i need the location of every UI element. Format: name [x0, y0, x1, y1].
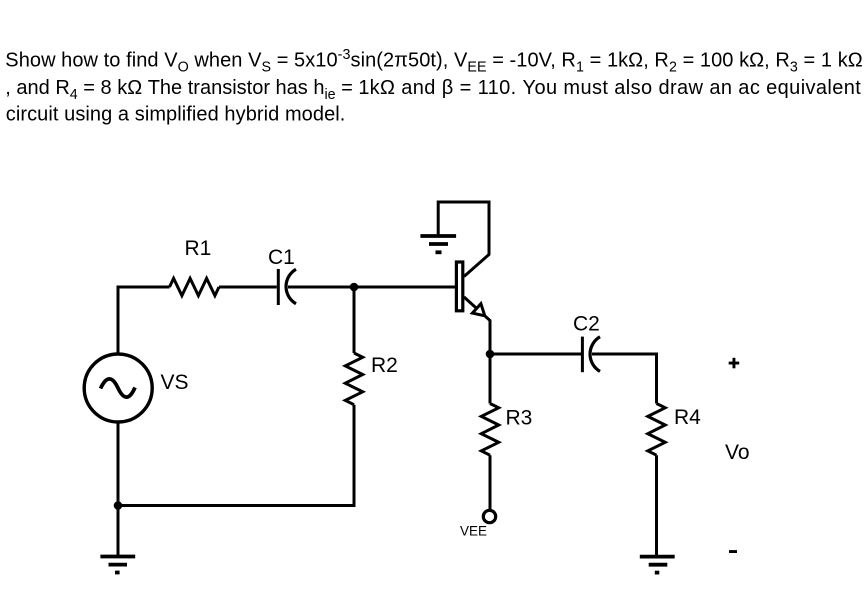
source VS	[84, 354, 152, 422]
ground (bottom left)	[100, 557, 135, 573]
emitter wire to C2	[490, 353, 581, 356]
resistor R1	[170, 278, 220, 295]
capacitor C1	[277, 269, 280, 305]
wire R4 to ground	[655, 455, 658, 556]
bottom-left junction dot	[114, 501, 123, 510]
wire R3 to VEE terminal	[489, 455, 492, 509]
resistor R2	[345, 353, 362, 405]
wire VS to bottom ground	[117, 422, 120, 557]
capacitor C2	[581, 337, 584, 373]
svg-text:VS: VS	[161, 371, 189, 394]
wire C1 to base node	[288, 286, 455, 289]
plus sign	[729, 358, 740, 369]
svg-text:R3: R3	[506, 407, 533, 430]
svg-text:C2: C2	[573, 313, 600, 336]
wire node A down to R2	[353, 287, 356, 353]
emitter node junction dot	[486, 350, 495, 359]
svg-text:VEE: VEE	[460, 524, 487, 539]
svg-text:kΩ and β = 110. You must also: kΩ and β = 110. You must also draw an ac…	[370, 77, 862, 99]
wire top-left from source up and right to R1	[118, 287, 170, 354]
minus sign	[729, 550, 737, 553]
svg-text:R4: R4	[674, 406, 701, 429]
transistor Q1 emitter arrowhead	[472, 304, 484, 316]
wire R1 to C1	[219, 286, 277, 289]
VEE terminal circle	[483, 510, 495, 522]
wire emitter node down to R3	[489, 354, 492, 404]
wire R2 bottom to bottom rail	[118, 405, 354, 506]
ground (bottom right, under R4)	[640, 557, 675, 573]
svg-text:circuit using a simplified hyb: circuit using a simplified hybrid model.	[6, 104, 346, 126]
svg-text:R1: R1	[185, 237, 212, 260]
svg-text:R2: R2	[371, 354, 398, 377]
ground (top, collector)	[420, 236, 456, 252]
transistor Q1 collector wire and top loop	[438, 202, 489, 277]
wire C2 to R4	[592, 354, 657, 404]
transistor Q1 base bar	[456, 262, 462, 311]
svg-text:Vo: Vo	[725, 441, 750, 464]
transistor Q1 emitter wire	[464, 297, 490, 354]
svg-text:Show how to find VO when VS =: Show how to find VO when VS = 5x10-3sin(…	[5, 47, 862, 76]
svg-text:C1: C1	[268, 246, 295, 269]
resistor R4	[648, 404, 665, 456]
resistor R3	[481, 404, 498, 456]
problem statement text	[5, 47, 862, 126]
node A junction dot (base node)	[350, 283, 359, 292]
